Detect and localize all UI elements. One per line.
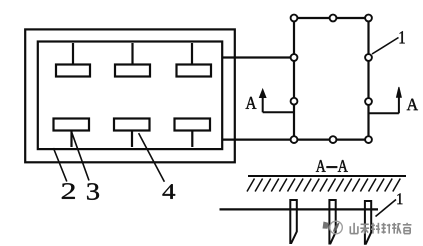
equipment box E4 (bottom row) bbox=[54, 119, 90, 131]
node top-left bbox=[291, 15, 298, 22]
bond wire E1 to ring bbox=[72, 43, 74, 65]
node bottom-left bbox=[291, 136, 298, 143]
label 4 bbox=[163, 184, 176, 199]
wire: lower grounding conductor building to grid (grid bottom side) bbox=[222, 139, 369, 141]
node bottom-middle bbox=[330, 136, 337, 143]
vertical earth electrode 3 (section view) bbox=[365, 201, 371, 244]
watermark char 教 bbox=[393, 223, 395, 234]
bond wire E2 to ring bbox=[131, 43, 133, 65]
equipment box E1 (top row) bbox=[56, 65, 90, 77]
watermark text (stylised CJK strokes) bbox=[350, 223, 411, 234]
bond wire E6 to ring bbox=[191, 131, 193, 148]
label 1 (section view) bbox=[397, 193, 402, 204]
bond wire E3 to ring bbox=[191, 43, 193, 65]
node top-middle bbox=[330, 15, 337, 22]
node left lower bbox=[291, 98, 298, 105]
ground grid right side bbox=[367, 18, 369, 140]
label 1 (plan view) bbox=[400, 31, 405, 43]
wire: upper grounding conductor building to grid bbox=[222, 56, 294, 58]
section title A-A bbox=[316, 160, 326, 172]
section cut arrow right bbox=[369, 87, 402, 113]
node right lower bbox=[365, 98, 372, 105]
buried horizontal conductor (section view) bbox=[220, 208, 379, 210]
watermark char 新 bbox=[383, 223, 385, 234]
equipment box E2 (top row) bbox=[115, 65, 150, 77]
earth hatching bbox=[247, 179, 400, 192]
leader line for label 1 (section view) bbox=[376, 200, 397, 217]
ground grid top side bbox=[294, 17, 369, 19]
watermark char 东 bbox=[361, 223, 369, 225]
leader line for label 2 bbox=[53, 148, 66, 182]
building inner wall (ring conductor) bbox=[38, 42, 222, 150]
watermark char 山 bbox=[349, 226, 351, 233]
equipment box E6 (bottom row) bbox=[175, 119, 211, 131]
building outer wall bbox=[25, 29, 235, 162]
label 3 bbox=[87, 183, 99, 200]
node right upper bbox=[365, 54, 372, 61]
equipment box E3 (top row) bbox=[177, 65, 212, 77]
ground surface line (section view) bbox=[248, 175, 406, 177]
bond wire E5 to ring bbox=[131, 131, 133, 148]
section cut arrow left bbox=[260, 89, 295, 112]
watermark logo mark bbox=[323, 221, 343, 234]
node bottom-right bbox=[365, 136, 372, 143]
leader line for label 4 bbox=[139, 133, 165, 182]
leader line for label 1 (plan view) bbox=[372, 38, 399, 55]
vertical earth electrode 1 (section view) bbox=[290, 200, 297, 243]
equipment box E5 (bottom row) bbox=[114, 119, 150, 131]
watermark char 育 bbox=[403, 224, 412, 226]
leader line for label 3 bbox=[72, 132, 89, 180]
label A right bbox=[407, 99, 418, 110]
electrode nodes (circles) of ground grid bbox=[291, 15, 372, 143]
node left upper bbox=[291, 54, 298, 61]
bond wire E4 to ring bbox=[70, 131, 72, 148]
node top-right bbox=[365, 15, 372, 22]
watermark char 科 bbox=[372, 223, 374, 234]
label 2 bbox=[62, 183, 75, 199]
ground grid left side bbox=[293, 18, 295, 140]
label A left bbox=[246, 97, 257, 109]
vertical earth electrode 2 (section view) bbox=[329, 200, 335, 244]
